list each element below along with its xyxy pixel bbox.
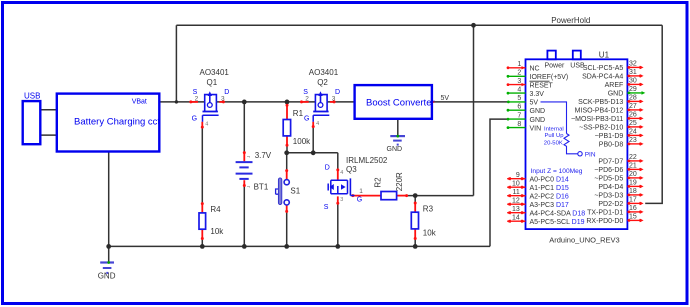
svg-text:20: 20 xyxy=(629,171,637,178)
svg-text:Q2: Q2 xyxy=(317,78,328,87)
svg-text:2: 2 xyxy=(517,70,521,77)
svg-text:Q3: Q3 xyxy=(346,165,357,174)
svg-text:3.3V: 3.3V xyxy=(530,91,545,98)
svg-text:17: 17 xyxy=(629,197,637,204)
svg-text:21: 21 xyxy=(629,163,637,170)
svg-text:13: 13 xyxy=(512,206,520,213)
svg-text:¬: ¬ xyxy=(247,184,250,190)
svg-text:18: 18 xyxy=(629,188,637,195)
svg-text:220R: 220R xyxy=(395,172,404,191)
svg-text:23: 23 xyxy=(629,137,637,144)
svg-text:GND: GND xyxy=(530,117,546,124)
svg-text:MISO-PB4-D12: MISO-PB4-D12 xyxy=(575,108,624,115)
svg-text:10k: 10k xyxy=(423,228,437,237)
svg-text:4: 4 xyxy=(340,170,343,176)
svg-text:29: 29 xyxy=(629,86,637,93)
svg-text:~SS-PB2-D10: ~SS-PB2-D10 xyxy=(579,125,623,132)
svg-text:2: 2 xyxy=(305,96,309,103)
svg-text:VIN: VIN xyxy=(530,125,542,132)
svg-text:26: 26 xyxy=(629,112,637,119)
svg-text:PD2-D2: PD2-D2 xyxy=(598,201,623,208)
svg-text:7: 7 xyxy=(517,112,521,119)
svg-text:Internal: Internal xyxy=(544,126,564,132)
svg-text:GND: GND xyxy=(387,146,403,153)
svg-text:3: 3 xyxy=(332,96,336,103)
svg-text:AREF: AREF xyxy=(605,82,624,89)
svg-text:GND: GND xyxy=(98,272,116,281)
svg-text:10k: 10k xyxy=(210,227,224,236)
svg-text:3.7V: 3.7V xyxy=(255,151,272,160)
svg-text:16: 16 xyxy=(629,205,637,212)
svg-text:D: D xyxy=(335,89,340,96)
svg-text:Boost Converter: Boost Converter xyxy=(366,97,435,108)
svg-text:SDA-PC4-A4: SDA-PC4-A4 xyxy=(582,74,623,81)
svg-text:100k: 100k xyxy=(293,137,311,146)
svg-text:10: 10 xyxy=(512,180,520,187)
svg-text:Arduino_UNO_REV3: Arduino_UNO_REV3 xyxy=(549,236,619,245)
svg-text:14: 14 xyxy=(512,214,520,221)
svg-text:9: 9 xyxy=(516,172,520,179)
svg-text:SCK-PB5-D13: SCK-PB5-D13 xyxy=(578,99,623,106)
svg-text:R3: R3 xyxy=(423,205,434,214)
svg-text:D: D xyxy=(325,164,330,171)
svg-text:AO3401: AO3401 xyxy=(200,68,230,77)
svg-text:Power: Power xyxy=(545,62,566,69)
svg-text:15: 15 xyxy=(629,214,637,221)
svg-text:31: 31 xyxy=(629,69,637,76)
svg-text:5V: 5V xyxy=(441,95,450,102)
svg-text:IOREF(+5V): IOREF(+5V) xyxy=(530,74,569,81)
svg-text:VBat: VBat xyxy=(132,99,147,106)
svg-text:28: 28 xyxy=(629,95,637,102)
svg-text:3: 3 xyxy=(340,197,343,203)
svg-text:G: G xyxy=(192,115,197,122)
svg-text:G: G xyxy=(357,197,362,204)
svg-text:SCL-PC5-A5: SCL-PC5-A5 xyxy=(583,65,624,72)
svg-text:RESET: RESET xyxy=(530,82,554,89)
svg-text:11: 11 xyxy=(513,189,520,196)
svg-text:1: 1 xyxy=(359,188,363,195)
svg-text:A5-PC5-SCL D19: A5-PC5-SCL D19 xyxy=(530,219,585,226)
svg-text:R1: R1 xyxy=(293,109,304,118)
svg-text:22: 22 xyxy=(629,154,637,161)
svg-text:25: 25 xyxy=(629,120,637,127)
svg-text:~MOSI-PB3-D11: ~MOSI-PB3-D11 xyxy=(571,116,623,123)
svg-text:8: 8 xyxy=(517,121,521,128)
svg-text:A3-PC3 D17: A3-PC3 D17 xyxy=(530,202,569,209)
svg-text:~PD6-D6: ~PD6-D6 xyxy=(594,167,623,174)
svg-text:5V: 5V xyxy=(530,100,539,107)
svg-text:19: 19 xyxy=(629,180,637,187)
svg-text:6: 6 xyxy=(517,103,521,110)
svg-text:A0-PC0 D14: A0-PC0 D14 xyxy=(530,177,569,184)
svg-text:GND: GND xyxy=(608,91,624,98)
svg-text:RX-PD0-D0: RX-PD0-D0 xyxy=(586,218,623,225)
svg-text:3: 3 xyxy=(517,78,521,85)
svg-text:A4-PC4-SDA D18: A4-PC4-SDA D18 xyxy=(530,211,586,218)
svg-text:GND: GND xyxy=(530,108,546,115)
svg-text:2: 2 xyxy=(195,96,199,103)
svg-text:PD7-D7: PD7-D7 xyxy=(598,159,623,166)
svg-text:Q1: Q1 xyxy=(207,78,218,87)
svg-text:Input Z = 100Meg: Input Z = 100Meg xyxy=(531,168,583,175)
svg-text:3: 3 xyxy=(221,96,225,103)
svg-text:IRLML2502: IRLML2502 xyxy=(346,156,388,165)
svg-text:4: 4 xyxy=(205,122,208,128)
svg-text:~PD5-D5: ~PD5-D5 xyxy=(594,176,623,183)
svg-text:Battery Charging cct: Battery Charging cct xyxy=(74,117,160,128)
svg-text:G: G xyxy=(304,115,309,122)
svg-text:USB: USB xyxy=(570,62,585,69)
svg-text:TX-PD1-D1: TX-PD1-D1 xyxy=(587,210,623,217)
svg-text:4: 4 xyxy=(316,121,319,127)
svg-text:A2-PC2 D16: A2-PC2 D16 xyxy=(530,194,569,201)
svg-text:USB: USB xyxy=(24,91,40,100)
svg-text:1: 1 xyxy=(517,61,521,68)
svg-text:20-50K: 20-50K xyxy=(544,141,563,147)
svg-text:~PD3-D3: ~PD3-D3 xyxy=(594,193,623,200)
svg-text:24: 24 xyxy=(629,129,637,136)
svg-text:Pull Up: Pull Up xyxy=(545,133,565,139)
svg-text:PD4-D4: PD4-D4 xyxy=(598,184,623,191)
svg-text:A1-PC1 D15: A1-PC1 D15 xyxy=(530,185,569,192)
svg-text:U1: U1 xyxy=(599,50,610,59)
svg-text:¬: ¬ xyxy=(247,154,250,160)
svg-text:BT1: BT1 xyxy=(254,182,269,191)
svg-text:R4: R4 xyxy=(210,205,221,214)
svg-text:30: 30 xyxy=(629,78,637,85)
svg-text:27: 27 xyxy=(629,103,637,110)
svg-text:S: S xyxy=(324,204,329,211)
svg-text:5: 5 xyxy=(517,95,521,102)
svg-text:AO3401: AO3401 xyxy=(309,68,339,77)
svg-text:R2: R2 xyxy=(373,177,382,188)
svg-text:4: 4 xyxy=(517,86,521,93)
svg-text:32: 32 xyxy=(629,61,637,68)
svg-text:PowerHold: PowerHold xyxy=(551,16,590,25)
svg-text:~PB1-D9: ~PB1-D9 xyxy=(595,133,624,140)
svg-text:12: 12 xyxy=(512,197,520,204)
svg-text:PIN: PIN xyxy=(585,151,596,158)
svg-text:NC: NC xyxy=(530,66,540,73)
svg-text:PB0-D8: PB0-D8 xyxy=(599,142,624,149)
svg-text:D: D xyxy=(224,89,229,96)
svg-text:S1: S1 xyxy=(290,187,300,196)
